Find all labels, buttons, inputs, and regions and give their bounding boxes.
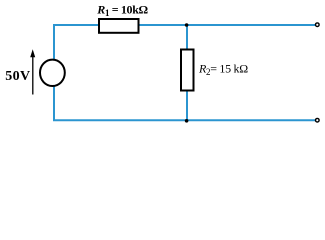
svg-text:R1 = 10kΩ: R1 = 10kΩ (96, 3, 148, 19)
svg-text:R2= 15 kΩ: R2= 15 kΩ (198, 61, 248, 77)
svg-text:50V: 50V (5, 69, 30, 84)
